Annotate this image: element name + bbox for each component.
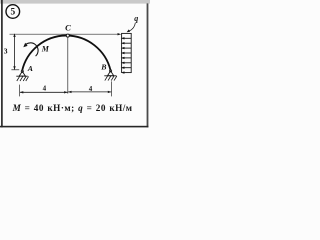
dimension line 3 (vertical, left) <box>13 33 15 69</box>
circled figure number 5 <box>6 5 20 19</box>
distributed load ladder: top bar <box>121 32 131 34</box>
distributed load ladder: left rail <box>121 33 123 72</box>
support B: triangle <box>108 71 114 76</box>
svg-text:B: B <box>100 62 106 71</box>
extension line below A <box>19 85 21 97</box>
moment arrowhead <box>23 43 27 47</box>
top gray scan band <box>0 0 150 4</box>
dimension line 4 (left span) <box>20 91 68 93</box>
distributed load ladder: right rail <box>130 33 132 72</box>
svg-text:4: 4 <box>89 85 93 93</box>
q leader curve <box>129 23 136 32</box>
left frame border <box>1 0 3 127</box>
dimension line 4 (right span) <box>68 91 112 93</box>
support A: hatching <box>17 76 29 81</box>
support A: triangle <box>19 71 25 76</box>
distributed load arrows (rungs) <box>124 38 132 72</box>
page background <box>0 0 150 128</box>
support A: pin circle <box>21 70 23 72</box>
svg-text:M: M <box>41 44 50 53</box>
center vertical line from C <box>67 37 69 93</box>
svg-text:5: 5 <box>11 8 16 18</box>
q leader arrowhead <box>127 29 131 32</box>
support A: ground line <box>16 75 28 77</box>
arrowhead of reference line pointing right at load <box>118 33 122 35</box>
moment arc M <box>25 43 39 56</box>
svg-text:C: C <box>65 23 71 33</box>
support B: ground line <box>104 75 116 77</box>
horizontal reference line at crown level <box>10 33 119 35</box>
extension line below B <box>111 81 113 96</box>
support B: pin circle <box>110 70 112 72</box>
ground-level tick at bottom of dimension 3 <box>11 69 19 71</box>
hinge circle at C <box>66 34 69 37</box>
svg-text:q: q <box>134 14 138 23</box>
support B: hatching <box>105 76 117 81</box>
bottom frame border <box>0 126 148 128</box>
distributed load arrowheads <box>121 37 125 74</box>
svg-text:M = 40 кН·м; q = 20 кН/м: M = 40 кН·м; q = 20 кН/м <box>12 103 133 113</box>
arch A-C-B <box>22 36 111 72</box>
svg-text:4: 4 <box>43 85 47 93</box>
svg-text:A: A <box>27 64 33 73</box>
right frame border <box>147 3 149 127</box>
svg-text:3: 3 <box>4 47 8 56</box>
